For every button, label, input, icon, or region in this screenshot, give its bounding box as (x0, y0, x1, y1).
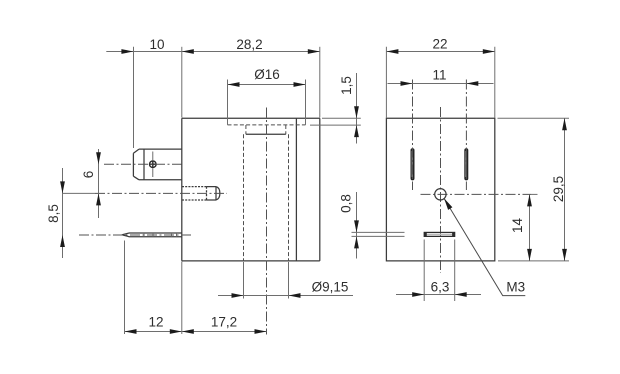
svg-text:14: 14 (510, 218, 525, 234)
dimension 11 (388, 81, 494, 86)
pin centerline (79, 234, 192, 236)
left terminal slot (411, 148, 415, 180)
hidden neck below flange (246, 125, 286, 134)
dimension 14 (527, 194, 537, 261)
extension line body right top (319, 47, 321, 118)
dimension 6,3 (396, 240, 481, 302)
svg-text:10: 10 (149, 37, 164, 52)
right view vertical centerline (440, 107, 442, 273)
dimension 12 and 17,2 bottom (125, 241, 267, 335)
stud centerline (63, 192, 96, 194)
screw head on connector block (150, 152, 157, 178)
dimension O9,15 (218, 262, 353, 299)
svg-text:12: 12 (148, 315, 163, 330)
svg-text:1,5: 1,5 (339, 76, 354, 95)
connector block (133, 149, 181, 180)
svg-text:6: 6 (81, 171, 96, 179)
inner rear edge line (295, 118, 297, 261)
dimension 10 and 28,2 top line (106, 49, 319, 54)
hole shoulder line (246, 133, 286, 135)
right view horizontal centerline (421, 193, 532, 195)
svg-text:8,5: 8,5 (46, 204, 61, 223)
dimension 22 (386, 47, 494, 118)
svg-text:17,2: 17,2 (211, 315, 237, 330)
dimension 0,8 (352, 192, 405, 259)
svg-text:0,8: 0,8 (339, 194, 354, 213)
svg-text:M3: M3 (506, 280, 525, 295)
svg-text:Ø9,15: Ø9,15 (312, 280, 349, 295)
svg-text:28,2: 28,2 (236, 37, 262, 52)
threaded stud terminal (182, 187, 220, 200)
hidden flange O16 under top plate (228, 124, 306, 126)
extension line body left top (181, 47, 183, 118)
coil body outline right view (386, 118, 494, 261)
dimension O16 (228, 80, 306, 125)
right terminal slot (464, 148, 468, 180)
svg-text:Ø16: Ø16 (254, 67, 280, 82)
right slot centerline (465, 80, 467, 191)
dimension 6 (96, 149, 101, 218)
dimension 1,5 plate thickness (310, 73, 361, 144)
svg-text:22: 22 (432, 37, 447, 52)
connector block centerline (104, 163, 182, 165)
vertical centerline of armature bore (266, 108, 268, 335)
left slot centerline (412, 80, 414, 191)
bottom mounting slot 6,3 x 0,8 (424, 232, 455, 236)
coil body outline left view (182, 118, 320, 261)
M3 hole circle (435, 189, 446, 200)
leader line M3 (444, 198, 525, 295)
svg-text:29,5: 29,5 (551, 176, 566, 202)
flat pin terminal (122, 233, 182, 237)
svg-text:11: 11 (432, 68, 446, 83)
hidden hole O9.15 sides (244, 134, 289, 261)
dimension 29,5 (498, 118, 570, 261)
svg-text:6,3: 6,3 (431, 279, 450, 294)
dimension 8,5 (60, 168, 65, 258)
extension line pin block left (133, 47, 135, 148)
